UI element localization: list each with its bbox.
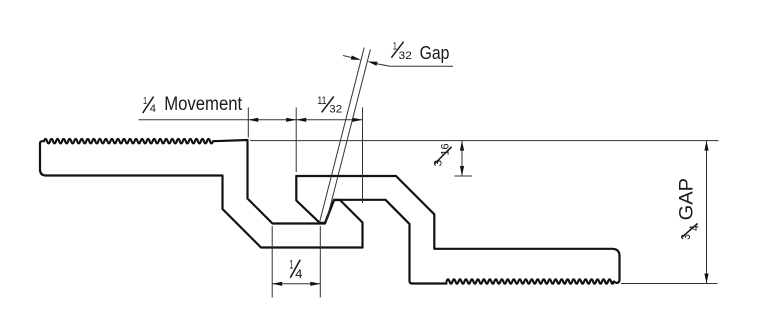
svg-text:4: 4 [150,103,156,115]
svg-text:11: 11 [317,95,326,107]
svg-text:32: 32 [399,50,412,62]
svg-text:4: 4 [688,225,702,231]
svg-text:1: 1 [289,257,293,271]
svg-text:4: 4 [295,267,303,281]
svg-text:Movement: Movement [164,94,243,115]
svg-text:16: 16 [440,143,452,155]
svg-text:32: 32 [329,103,342,115]
svg-text:GAP: GAP [677,178,698,221]
svg-text:Gap: Gap [420,42,450,63]
svg-text:1: 1 [143,95,147,107]
